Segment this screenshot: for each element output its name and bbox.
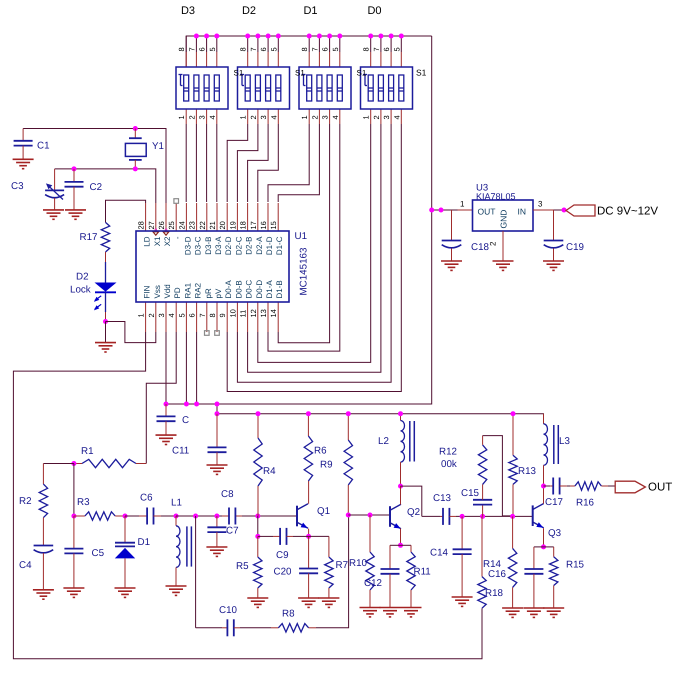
- svg-text:IN: IN: [518, 207, 527, 217]
- wire switch D0 pin 3 to U1 pin 10: [237, 124, 391, 382]
- svg-text:8: 8: [362, 47, 371, 51]
- junction Y1 top: [133, 126, 138, 131]
- switch D3 slider 3: [204, 75, 209, 101]
- svg-text:4: 4: [269, 115, 278, 119]
- wire switch D1 pin 3 to U1 pin 14: [278, 124, 329, 343]
- capacitor C9: [258, 535, 273, 537]
- voltage regulator U3 KIA78L05 body: [473, 200, 534, 231]
- svg-text:C1: C1: [37, 140, 50, 151]
- junction rail RA1: [184, 402, 189, 407]
- switch D0 lever mark: [363, 74, 367, 76]
- wire switch D3 pin 1 to U1 pin 24: [185, 124, 187, 202]
- crystal Y1: [134, 129, 136, 139]
- svg-text:7: 7: [310, 47, 319, 51]
- no-connect box on U1 pin 8 (pV): [215, 331, 220, 336]
- svg-text:Lock: Lock: [70, 285, 91, 296]
- U1 pin 14 (D1-B) stub: [277, 302, 279, 332]
- svg-text:R8: R8: [282, 609, 295, 620]
- junction bus / switch D2 pin 7: [255, 34, 260, 39]
- wire bus to switch D1 pin 7: [318, 36, 320, 52]
- svg-text:D0-A: D0-A: [224, 280, 233, 299]
- LED D2 (lock indicator): [105, 262, 107, 283]
- U1 pin 17 (D2-A) stub: [257, 203, 259, 231]
- U1 pin 26 (X2) stub: [165, 203, 167, 231]
- ground of C3: [43, 209, 64, 211]
- U1 pin 13 (D1-A) stub: [267, 302, 269, 332]
- svg-text:D1: D1: [138, 537, 151, 548]
- svg-text:20: 20: [218, 221, 227, 229]
- junction Q1 base node: [255, 514, 260, 519]
- DIP switch S1 (digit D0) body: [361, 67, 413, 109]
- svg-text:D1-B: D1-B: [275, 280, 284, 298]
- pin 5 stub of switch S1 (D1): [339, 52, 341, 67]
- capacitor C2: [73, 169, 75, 182]
- junction bus / switch D1 pin 7: [317, 34, 322, 39]
- wire switch D0 pin 2 to U1 pin 11: [248, 124, 381, 372]
- junction feedback tap: [193, 514, 198, 519]
- capacitor C12: [390, 544, 401, 546]
- LED D2 emission arrow 1: [95, 296, 101, 301]
- svg-text:X1: X1: [153, 236, 162, 246]
- ground of C11: [207, 464, 228, 466]
- no-connect box on U1 pin 25: [174, 199, 179, 204]
- capacitor C (Vdd bypass): [165, 404, 167, 416]
- switch D3 lever mark: [179, 74, 183, 76]
- svg-text:R13: R13: [518, 466, 537, 477]
- wire emitter to R7: [309, 535, 329, 537]
- capacitor C16: [534, 546, 544, 548]
- pin 3 stub of switch D3: [206, 109, 208, 124]
- svg-text:C: C: [182, 415, 189, 426]
- wire +5V bus vertical right side down to regulator output and upper rail: [166, 36, 432, 404]
- pin 1 stub of switch D0: [370, 109, 372, 124]
- svg-text:GND: GND: [499, 210, 509, 229]
- wire switch D2 pin 3 to U1 pin 18: [248, 124, 269, 202]
- no-connect box on U1 pin 7 (pR): [205, 331, 210, 336]
- wire switch D2 pin 4 to U1 pin 17: [258, 124, 279, 202]
- junction D1 node: [123, 514, 128, 519]
- svg-text:1: 1: [137, 313, 146, 317]
- capacitor C1: [22, 129, 24, 141]
- junction Q3 emitter: [541, 544, 546, 549]
- svg-text:R3: R3: [77, 497, 90, 508]
- wire bus to switch D0 pin 8: [370, 36, 372, 52]
- capacitor C18: [451, 210, 453, 241]
- svg-text:D1-C: D1-C: [275, 236, 284, 255]
- svg-text:C15: C15: [461, 488, 480, 499]
- svg-text:21: 21: [208, 221, 217, 229]
- svg-text:1: 1: [239, 115, 248, 119]
- svg-text:C16: C16: [488, 569, 507, 580]
- svg-text:R9: R9: [320, 460, 333, 471]
- switch D1 slider 3: [327, 75, 332, 101]
- svg-text:4: 4: [208, 115, 217, 119]
- svg-text:14: 14: [269, 309, 278, 317]
- DIP switch S1 (digit D2) body: [238, 67, 290, 109]
- U1 pin 9 (D0-A) stub: [226, 302, 228, 332]
- capacitor C15: [482, 505, 484, 517]
- pin 7 stub of switch S1 (D1): [318, 52, 320, 67]
- U1 pin 4 (PD) stub: [175, 302, 177, 332]
- svg-text:L2: L2: [378, 436, 389, 447]
- junction R9 bottom: [346, 513, 351, 518]
- wire bus to switch D2 pin 7: [257, 36, 259, 52]
- junction rail L2: [398, 411, 403, 416]
- svg-text:L1: L1: [171, 498, 182, 509]
- pin 7 stub of switch S1 (D0): [380, 52, 382, 67]
- junction rail R6: [306, 411, 311, 416]
- svg-text:2: 2: [249, 115, 258, 119]
- wire C8 to Q1 base: [235, 515, 242, 517]
- junction C7 top: [214, 514, 219, 519]
- resistor R1: [74, 463, 82, 465]
- wire R1 node down to R3: [73, 464, 75, 517]
- ground of C12: [380, 607, 401, 609]
- svg-text:D2-A: D2-A: [255, 236, 264, 255]
- switch D1 slider 1: [307, 75, 312, 101]
- pin 1 stub of switch D3: [185, 109, 187, 124]
- U1 pin 16 (D1-D) stub: [267, 203, 269, 231]
- wire bus to switch D0 pin 7: [380, 36, 382, 52]
- svg-text:5: 5: [269, 47, 278, 51]
- wire C10 to R8: [240, 627, 271, 629]
- junction bus / switch D1 pin 6: [327, 34, 332, 39]
- svg-text:16: 16: [259, 221, 268, 229]
- svg-text:D1-A: D1-A: [265, 280, 274, 299]
- junction bus / switch D3 pin 5: [214, 34, 219, 39]
- junction bus / switch D0 pin 5: [399, 34, 404, 39]
- pin 5 stub of switch S1 (D0): [400, 52, 402, 67]
- U1 pin 2 (Vss) stub: [155, 302, 157, 332]
- wire Q1 collector to R6: [308, 481, 310, 504]
- wire +5V bus to U3 OUT pin1: [432, 209, 458, 211]
- pin 8 stub of switch S1 (D0): [370, 52, 372, 67]
- resistor R8: [271, 627, 278, 629]
- clock edge mark on U1 pin 27 X1: [155, 229, 157, 231]
- resistor R10: [369, 515, 371, 552]
- capacitor C17: [544, 485, 551, 487]
- svg-text:C18: C18: [471, 242, 490, 253]
- capacitor C5: [73, 516, 75, 549]
- wire C13 to Q3 base: [456, 515, 533, 517]
- svg-text:3: 3: [198, 115, 207, 119]
- junction R10 top: [368, 513, 373, 518]
- pin 2 stub of switch D3: [195, 109, 197, 124]
- svg-text:R7: R7: [336, 560, 349, 571]
- junction R1 left: [71, 461, 76, 466]
- pin 4 stub of switch D1: [339, 109, 341, 124]
- switch D3 slider 2: [194, 75, 199, 101]
- U1 pin 19 (D2-C) stub: [236, 203, 238, 231]
- svg-text:R1: R1: [81, 446, 94, 457]
- svg-text:3: 3: [259, 115, 268, 119]
- resistor R16: [570, 485, 575, 487]
- switch D3 slider 1: [184, 75, 189, 101]
- wire switch D2 pin 1 to U1 pin 20: [227, 124, 248, 202]
- svg-text:C10: C10: [219, 605, 238, 616]
- transistor Q3: [532, 505, 534, 526]
- junction rail R9: [346, 411, 351, 416]
- svg-text:OUT: OUT: [648, 482, 672, 494]
- ground of R14: [502, 607, 523, 609]
- junction bus / switch D1 pin 8: [307, 34, 312, 39]
- switch D1 slider 2: [317, 75, 322, 101]
- wire Q3 emitter to R15: [544, 546, 554, 548]
- resistor R3: [74, 515, 85, 517]
- capacitor C6: [125, 515, 139, 517]
- ground of C14: [452, 596, 473, 598]
- wire Q2 emitter to R11: [401, 544, 412, 546]
- wire Q2 emitter down: [400, 529, 402, 546]
- junction bus / switch D2 pin 5: [276, 34, 281, 39]
- svg-text:4: 4: [167, 313, 176, 317]
- U1 pin 22 (D3-B) stub: [206, 203, 208, 231]
- U1 pin 3 (Vdd) stub: [165, 302, 167, 332]
- junction DC input: [562, 208, 567, 213]
- svg-text:9: 9: [218, 313, 227, 317]
- wire top pull-up bus from S1 pin8 to right side: [186, 36, 432, 67]
- U1 pin 8 (pV) stub: [216, 302, 218, 332]
- svg-text:MC145163: MC145163: [299, 247, 310, 295]
- resistor R6: [307, 414, 309, 436]
- svg-text:-: -: [173, 236, 182, 239]
- svg-text:24: 24: [177, 221, 186, 229]
- wire bus to switch D3 pin 7: [195, 36, 197, 52]
- junction R3 left: [71, 514, 76, 519]
- svg-text:27: 27: [147, 221, 156, 229]
- switch D1 lever mark: [302, 74, 306, 76]
- wire bus to switch D1 pin 6: [329, 36, 331, 52]
- inductor L3: [543, 414, 545, 424]
- ground of C18: [441, 260, 462, 262]
- svg-text:5: 5: [331, 47, 340, 51]
- pin 3 stub of switch D0: [390, 109, 392, 124]
- U1 pin 21 (D3-A) stub: [216, 203, 218, 231]
- svg-text:Q1: Q1: [317, 506, 330, 517]
- svg-text:1: 1: [177, 115, 186, 119]
- wire bus to switch D2 pin 8: [247, 36, 249, 52]
- U1 pin 28 (LD) stub: [145, 203, 147, 231]
- svg-text:D0-C: D0-C: [245, 280, 254, 299]
- switch D2 lever mark: [240, 74, 244, 76]
- pin 6 stub of switch S1 (D3): [206, 52, 208, 67]
- svg-text:S1: S1: [295, 69, 305, 78]
- pin 7 stub of switch S1 (D3): [195, 52, 197, 67]
- svg-text:26: 26: [157, 221, 166, 229]
- wire LED node to U1 Vss pin 2: [106, 322, 156, 343]
- svg-text:C2: C2: [90, 182, 103, 193]
- U3 GND pin 2 stub: [502, 231, 504, 261]
- switch D0 slider 1: [368, 75, 373, 101]
- svg-text:3: 3: [382, 115, 391, 119]
- svg-text:X2: X2: [163, 236, 172, 246]
- svg-text:15: 15: [269, 221, 278, 229]
- wire U1 LD pin 28 to R17: [106, 200, 146, 222]
- svg-text:S1: S1: [357, 69, 367, 78]
- svg-text:R12: R12: [439, 447, 457, 458]
- switch D0 slider 3: [389, 75, 394, 101]
- junction bus / switch D2 pin 8: [245, 34, 250, 39]
- wire Q2 collector to L2: [400, 486, 402, 504]
- svg-text:FIN: FIN: [143, 285, 152, 298]
- op IC U1 MC145163 body: [136, 231, 289, 302]
- pin 8 stub of switch S1 (D3): [185, 52, 187, 67]
- junction L2 bottom: [398, 484, 403, 489]
- svg-text:1: 1: [300, 115, 309, 119]
- junction bus / switch D1 pin 5: [337, 34, 342, 39]
- switch D2 slider 3: [266, 75, 271, 101]
- svg-text:D1-D: D1-D: [265, 236, 274, 255]
- U3 pin 3 stub: [533, 209, 554, 211]
- ground of C7: [206, 546, 227, 548]
- svg-text:18: 18: [239, 221, 248, 229]
- wire Q1 emitter down: [308, 529, 310, 537]
- inductor L1: [175, 516, 177, 526]
- svg-text:C11: C11: [172, 446, 189, 457]
- resistor R14: [512, 516, 514, 548]
- svg-text:D2-D: D2-D: [224, 236, 233, 255]
- capacitor C20: [308, 536, 310, 568]
- wire R12 top over to Q3 base node: [483, 436, 513, 516]
- trimmer capacitor C3: [54, 169, 56, 191]
- pin 2 stub of switch D2: [257, 109, 259, 124]
- wire U1 RA1 pin5 to rail: [185, 332, 187, 404]
- wire R1 to R2: [43, 463, 74, 465]
- ground of C4: [33, 589, 54, 591]
- U1 pin 24 (D3-D) stub: [185, 203, 187, 231]
- svg-text:C8: C8: [221, 489, 234, 500]
- wire bus to switch D2 pin 6: [267, 36, 269, 52]
- junction bus / switch D3 pin 6: [204, 34, 209, 39]
- U1 pin 20 (D2-D) stub: [226, 203, 228, 231]
- switch D2 slider 4: [276, 75, 281, 101]
- svg-text:4: 4: [331, 115, 340, 119]
- clock edge mark on U1 pin 26 X2: [165, 229, 167, 231]
- wire bus to switch D1 pin 5: [339, 36, 341, 52]
- svg-text:3: 3: [157, 313, 166, 317]
- resistor R2: [42, 464, 44, 485]
- pin 8 stub of switch S1 (D2): [247, 52, 249, 67]
- svg-text:C20: C20: [274, 567, 293, 578]
- svg-text:D1: D1: [303, 5, 317, 17]
- wire bus to switch D1 pin 8: [308, 36, 310, 52]
- resistor R12: [478, 445, 486, 485]
- capacitor C10: [222, 627, 227, 629]
- svg-text:C5: C5: [92, 548, 105, 559]
- wire feedback tap down: [195, 516, 197, 628]
- wire bus to switch D3 pin 5: [216, 36, 218, 52]
- U1 pin 10 (D0-B) stub: [236, 302, 238, 332]
- ground of C16: [523, 607, 544, 609]
- capacitor C4: [34, 545, 54, 547]
- capacitor C8: [228, 508, 230, 525]
- svg-text:pV: pV: [214, 288, 223, 298]
- wire C3 / C2 / Y1 bottom / X1 net: [55, 169, 156, 203]
- ground of R7: [318, 597, 339, 599]
- junction L3 bottom: [541, 484, 546, 489]
- junction LED cathode node: [103, 319, 108, 324]
- svg-text:D2: D2: [76, 272, 89, 283]
- svg-text:C14: C14: [430, 548, 449, 559]
- svg-text:Vdd: Vdd: [163, 284, 172, 298]
- ground of R5: [247, 597, 268, 599]
- junction bus / switch D0 pin 6: [389, 34, 394, 39]
- junction C14 top: [460, 514, 465, 519]
- svg-text:D0: D0: [367, 5, 381, 17]
- wire bus to switch D0 pin 5: [400, 36, 402, 52]
- svg-text:11: 11: [239, 310, 248, 318]
- capacitor C13: [440, 515, 443, 517]
- junction bus / switch D0 pin 8: [368, 34, 373, 39]
- ground of C: [156, 434, 177, 436]
- svg-text:7: 7: [372, 47, 381, 51]
- svg-text:3: 3: [538, 200, 543, 209]
- svg-text:C7: C7: [226, 526, 239, 537]
- ground of U3: [493, 260, 514, 262]
- svg-text:5: 5: [177, 313, 186, 317]
- resistor R17: [101, 222, 109, 252]
- wire R8 up to R9 node: [316, 515, 349, 628]
- wire switch D1 pin 4 to U1 pin 13: [268, 124, 340, 351]
- U1 pin 15 (D1-C) stub: [277, 203, 279, 231]
- pin 4 stub of switch D2: [277, 109, 279, 124]
- pin 1 stub of switch D2: [247, 109, 249, 124]
- svg-text:R17: R17: [80, 232, 98, 243]
- U1 pin 11 (D0-C) stub: [247, 302, 249, 332]
- svg-text:D2-C: D2-C: [234, 236, 243, 255]
- ground of L1: [166, 585, 187, 587]
- wire bus to switch D0 pin 6: [390, 36, 392, 52]
- pin 3 stub of switch D1: [329, 109, 331, 124]
- pin 2 stub of switch D0: [380, 109, 382, 124]
- junction rail branch: [215, 402, 220, 407]
- junction rail Vdd: [164, 402, 169, 407]
- wire switch D1 pin 1 to U1 pin 16: [268, 124, 309, 202]
- pin 3 stub of switch D2: [267, 109, 269, 124]
- junction C2 top: [72, 166, 77, 171]
- wire Q1 base node down to C9: [257, 516, 259, 536]
- svg-text:D3-A: D3-A: [214, 236, 223, 255]
- svg-text:2: 2: [147, 313, 156, 317]
- junction rail R13: [511, 411, 516, 416]
- wire U1 FIN pin1 loop around board to R18: [13, 332, 482, 659]
- svg-text:3: 3: [321, 115, 330, 119]
- wire switch D0 pin 1 to U1 pin 12: [258, 124, 371, 362]
- svg-text:C17: C17: [545, 497, 563, 508]
- junction bus / switch D0 pin 7: [378, 34, 383, 39]
- pin 7 stub of switch S1 (D2): [257, 52, 259, 67]
- svg-text:7: 7: [249, 47, 258, 51]
- svg-text:23: 23: [188, 221, 197, 229]
- svg-text:6: 6: [198, 47, 207, 51]
- resistor R13: [512, 414, 514, 456]
- svg-text:2: 2: [372, 115, 381, 119]
- svg-text:R18: R18: [485, 588, 504, 599]
- U1 pin 1 (FIN) stub: [145, 302, 147, 332]
- svg-text:7: 7: [198, 313, 207, 317]
- wire C17 to R16: [567, 485, 570, 487]
- pin 5 stub of switch S1 (D3): [216, 52, 218, 67]
- svg-text:8: 8: [300, 47, 309, 51]
- svg-text:R4: R4: [263, 466, 276, 477]
- svg-text:28: 28: [137, 221, 146, 229]
- wire switch D2 pin 2 to U1 pin 19: [237, 124, 258, 202]
- svg-text:S1: S1: [416, 68, 427, 78]
- U1 pin 23 (D3-C) stub: [196, 203, 198, 231]
- junction C9 left: [255, 534, 260, 539]
- svg-text:5: 5: [392, 47, 401, 51]
- svg-text:D2-B: D2-B: [245, 237, 254, 255]
